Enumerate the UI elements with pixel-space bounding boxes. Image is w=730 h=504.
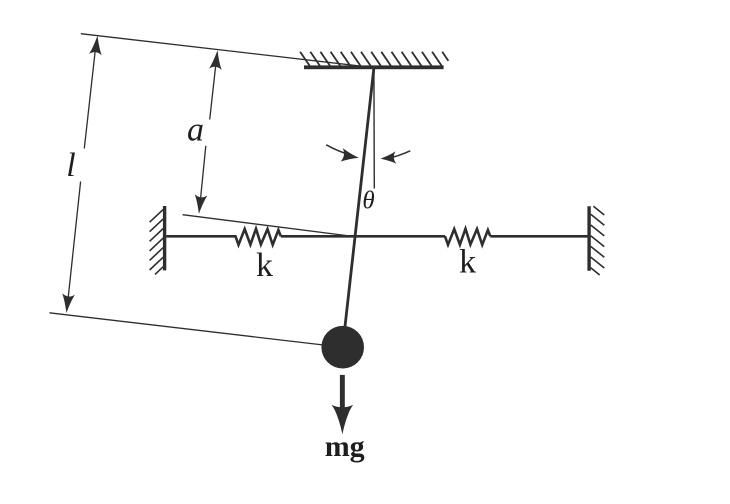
- svg-text:θ: θ: [362, 188, 374, 215]
- dimension arrow l bottom: [60, 293, 75, 314]
- left wall: [163, 206, 166, 270]
- vertical reference line: [373, 69, 375, 189]
- ceiling support bar: [304, 65, 444, 69]
- spring axis line left segment: [166, 235, 236, 238]
- right wall hatching: [591, 206, 605, 275]
- top extension line: [81, 34, 362, 66]
- spring k left: [236, 229, 281, 245]
- svg-text:a: a: [187, 112, 204, 149]
- spring axis line right segment: [490, 235, 587, 238]
- dimension arrow a top: [209, 49, 224, 70]
- ceiling hatching: [300, 52, 448, 67]
- right wall: [587, 206, 590, 270]
- mg force arrow: [332, 375, 354, 434]
- mid extension line (a reference): [183, 215, 355, 237]
- dimension arrow l top: [89, 35, 104, 56]
- left wall hatching: [150, 209, 164, 274]
- pendulum rod: [343, 69, 374, 347]
- dimension arrow a bottom: [193, 194, 208, 215]
- pendulum bob: [321, 326, 364, 369]
- theta left curved arrow: [326, 145, 351, 155]
- bottom extension line: [49, 313, 322, 345]
- svg-text:mg: mg: [325, 430, 365, 463]
- svg-text:k: k: [459, 243, 476, 280]
- svg-text:l: l: [66, 147, 75, 184]
- theta right curved arrow: [389, 151, 411, 158]
- dimension line a: [200, 61, 216, 201]
- dimension line l: [67, 42, 96, 306]
- svg-text:k: k: [256, 247, 273, 284]
- spring axis line middle segment: [281, 235, 445, 238]
- spring k right: [445, 229, 490, 245]
